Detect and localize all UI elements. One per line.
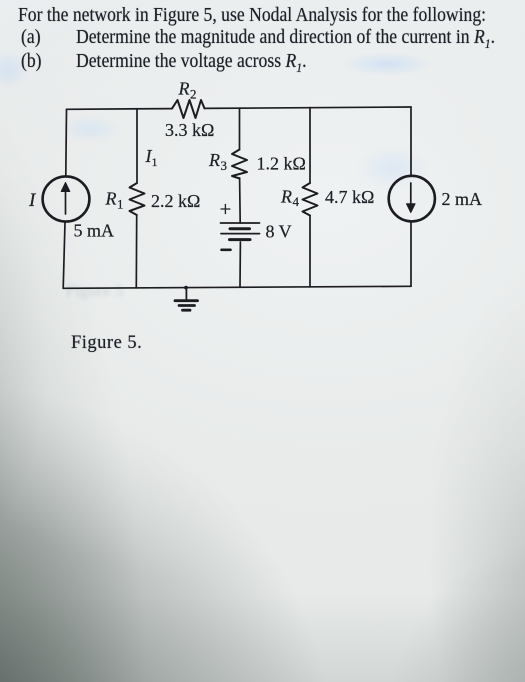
svg-text:4: 4 <box>293 194 300 209</box>
svg-text:R: R <box>208 150 220 170</box>
svg-text:2.2 kΩ: 2.2 kΩ <box>151 191 200 211</box>
svg-text:1: 1 <box>117 197 124 212</box>
svg-text:2: 2 <box>190 87 197 102</box>
svg-text:R: R <box>105 189 117 209</box>
svg-text:8 V: 8 V <box>266 222 292 242</box>
svg-text:1.2 kΩ: 1.2 kΩ <box>257 154 306 174</box>
svg-text:4.7 kΩ: 4.7 kΩ <box>325 187 374 207</box>
svg-text:I: I <box>28 190 37 211</box>
svg-text:R: R <box>178 79 190 99</box>
svg-text:3: 3 <box>221 158 228 173</box>
svg-text:+: + <box>220 197 232 221</box>
svg-text:1: 1 <box>152 155 158 169</box>
svg-text:R: R <box>280 187 292 207</box>
svg-text:3.3 kΩ: 3.3 kΩ <box>165 120 214 140</box>
svg-text:2 mA: 2 mA <box>442 189 483 209</box>
svg-text:5 mA: 5 mA <box>74 221 115 241</box>
